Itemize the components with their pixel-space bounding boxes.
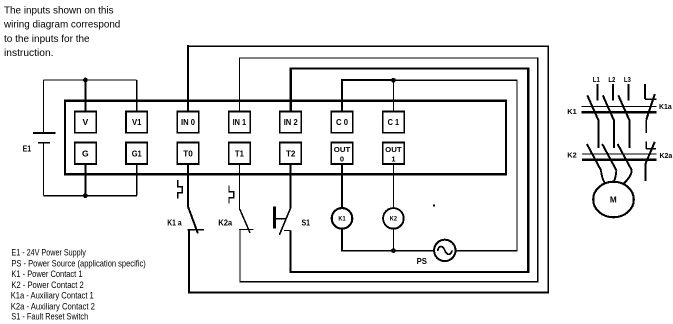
- svg-text:IN 2: IN 2: [284, 117, 298, 127]
- legend text: [11, 247, 146, 321]
- wire IN2 loop bottom: [291, 271, 530, 273]
- svg-text:V1: V1: [132, 117, 142, 127]
- aux K2a tail: [645, 163, 647, 181]
- svg-text:E1: E1: [23, 143, 32, 153]
- wire G drop (thick): [84, 164, 86, 196]
- contactor K2 bank thick bar: [582, 159, 656, 162]
- wire OUT0 to K1 coil: [341, 164, 343, 208]
- svg-text:L3: L3: [624, 75, 631, 84]
- svg-text:K1: K1: [567, 107, 576, 116]
- wire C0/C1 loop top: [341, 79, 394, 81]
- svg-text:C 1: C 1: [388, 117, 400, 127]
- wire E1 bottom horizontal to G1: [44, 195, 137, 197]
- aux K1a seat tick: [645, 98, 656, 100]
- contact K1a seat tick: [187, 229, 204, 231]
- wire IN1 loop right: [537, 58, 539, 283]
- wire G1 drop: [136, 164, 138, 196]
- wire IN1 loop top: [239, 57, 538, 59]
- contactor K1 blade phase1: [587, 95, 598, 120]
- battery E1 bottom plate: [38, 142, 50, 144]
- svg-text:OUT: OUT: [334, 145, 351, 154]
- switch S1 upper wire: [290, 164, 292, 208]
- terminal C1: [383, 111, 405, 132]
- svg-text:M: M: [610, 195, 617, 204]
- junction dot G: [83, 193, 88, 198]
- phase L1 stub: [597, 84, 599, 101]
- svg-text:T2: T2: [286, 148, 296, 158]
- contactor K1 blade phase2: [603, 95, 614, 120]
- svg-text:G1: G1: [132, 148, 142, 158]
- wire K2a lower drop: [239, 230, 241, 283]
- wire K2 coil to bottom: [392, 229, 394, 251]
- switch S1 stem: [276, 218, 286, 220]
- wire E1 bottom vertical: [43, 143, 45, 196]
- wire IN1 loop bottom: [240, 281, 538, 283]
- motor lead 2: [614, 170, 616, 181]
- coil K2: [383, 208, 404, 229]
- switch S1 seat tick: [284, 229, 291, 231]
- wire K1 coil to bottom: [341, 229, 343, 252]
- terminal G1: [126, 143, 147, 165]
- wire IN0 loop top: [187, 45, 549, 47]
- source PS circle: [434, 240, 455, 261]
- wire IN0 loop bottom: [188, 292, 549, 294]
- wire C1 to PS loop top: [393, 79, 517, 81]
- wire IN1 riser: [238, 58, 240, 112]
- svg-text:K2a: K2a: [660, 151, 673, 160]
- svg-text:E1 - 24V Power Supply: E1 - 24V Power Supply: [11, 247, 86, 257]
- phase1 mid wire: [598, 120, 600, 149]
- svg-text:V: V: [83, 117, 89, 127]
- aux K1a blade: [646, 94, 655, 120]
- svg-text:to the inputs for the: to the inputs for the: [4, 34, 90, 45]
- contact K1a hook: [178, 180, 183, 198]
- terminal T0: [177, 143, 199, 165]
- svg-text:0: 0: [340, 154, 344, 163]
- svg-text:K1: K1: [338, 217, 346, 223]
- svg-text:K2: K2: [567, 151, 576, 160]
- phase3 mid wire: [629, 120, 631, 149]
- terminal IN0: [177, 111, 199, 132]
- wire coil bottom bus: [341, 250, 434, 252]
- svg-text:K2 - Power Contact 2: K2 - Power Contact 2: [11, 280, 83, 290]
- contact K2a blade: [240, 209, 250, 233]
- svg-text:instruction.: instruction.: [4, 48, 54, 59]
- aux K1a upper wire: [644, 84, 646, 99]
- contactor K1 bank thick bar: [582, 111, 657, 114]
- terminal T1: [229, 143, 251, 165]
- svg-text:C 0: C 0: [336, 117, 348, 127]
- junction dot C1: [391, 78, 396, 83]
- controller main box: [65, 101, 506, 175]
- svg-text:K1a - Auxiliary Contact 1: K1a - Auxiliary Contact 1: [11, 291, 94, 301]
- motor lead 3: [624, 170, 632, 183]
- contact K1a upper wire: [187, 164, 189, 208]
- svg-text:K2a - Auxiliary Contact 2: K2a - Auxiliary Contact 2: [11, 301, 95, 311]
- svg-text:PS: PS: [417, 256, 428, 266]
- note: intro paragraph: [3, 5, 120, 59]
- svg-text:1: 1: [391, 154, 395, 163]
- wire IN2 loop right: [527, 68, 529, 274]
- wire PS loop right: [516, 79, 518, 250]
- svg-text:PS - Power Source (application: PS - Power Source (application specific): [11, 258, 145, 268]
- wire IN2 riser: [290, 68, 292, 112]
- junction dot V: [83, 78, 88, 83]
- aux K2a blade: [646, 142, 655, 163]
- svg-text:T1: T1: [235, 148, 244, 158]
- contact K2a hook: [229, 185, 234, 203]
- svg-text:The inputs shown on this: The inputs shown on this: [4, 5, 114, 16]
- contact K1a blade: [188, 207, 198, 233]
- wire IN0 loop right: [547, 45, 549, 293]
- phase2 mid wire: [613, 120, 615, 149]
- wire S1 lower drop: [290, 230, 292, 273]
- switch S1 blade: [279, 208, 290, 235]
- aux K2a seat tick: [646, 148, 656, 150]
- source PS sine: [438, 247, 452, 255]
- svg-text:S1 - Fault Reset Switch: S1 - Fault Reset Switch: [11, 312, 88, 322]
- svg-text:IN 1: IN 1: [233, 117, 247, 127]
- svg-text:S1: S1: [302, 217, 311, 227]
- terminal IN2: [280, 111, 302, 132]
- motor M: [593, 182, 634, 218]
- wire E1 top vertical: [43, 80, 45, 132]
- contactor K1 blade phase3: [618, 95, 629, 120]
- wire V drop (thick): [84, 80, 86, 111]
- wire K1a lower drop: [188, 230, 190, 294]
- svg-text:K1 - Power Contact 1: K1 - Power Contact 1: [11, 269, 82, 279]
- terminal OUT1: [383, 143, 405, 165]
- aux link lower segment: [645, 141, 647, 149]
- contactor K2 blade phase2: [602, 144, 616, 170]
- wire C1 drop: [392, 80, 394, 111]
- svg-text:G: G: [82, 148, 89, 158]
- terminal IN1: [229, 111, 251, 132]
- wire OUT1 to K2 coil: [392, 164, 394, 208]
- junction dot K2 bottom: [391, 248, 396, 253]
- svg-text:OUT: OUT: [385, 145, 402, 154]
- svg-text:L1: L1: [593, 75, 600, 84]
- wire V1 drop: [136, 80, 138, 111]
- wire E1 top horizontal to V1: [44, 79, 137, 81]
- svg-text:IN 0: IN 0: [181, 117, 195, 127]
- phase L2 stub: [612, 84, 614, 101]
- terminal OUT0: [331, 143, 353, 165]
- contact K2a upper wire: [238, 164, 240, 209]
- terminal V1: [126, 111, 147, 132]
- wire IN0 riser: [187, 45, 189, 111]
- wire PS loop bottom right: [456, 250, 518, 252]
- switch S1 button bar: [273, 207, 276, 229]
- svg-text:T0: T0: [183, 148, 193, 158]
- wire C0 riser (thick): [341, 79, 343, 111]
- contact K2a seat tick: [239, 229, 253, 231]
- terminal C0: [331, 111, 353, 132]
- contactor K2 blade phase3: [618, 144, 632, 170]
- phase L3 stub: [628, 84, 630, 101]
- svg-text:K2: K2: [390, 217, 398, 223]
- wire IN2 loop top: [290, 67, 529, 69]
- svg-text:L2: L2: [608, 75, 615, 84]
- terminal V: [75, 111, 97, 132]
- svg-text:K1 a: K1 a: [167, 217, 182, 227]
- stray speck: [433, 204, 435, 206]
- svg-text:K2a: K2a: [218, 217, 232, 227]
- aux link upper segment: [645, 120, 647, 133]
- svg-text:wiring diagram correspond: wiring diagram correspond: [3, 20, 120, 31]
- svg-text:K1a: K1a: [659, 102, 673, 111]
- terminal T2: [280, 143, 302, 165]
- battery E1 top plate: [33, 132, 56, 134]
- contactor K1 bank thin bar: [582, 106, 657, 108]
- terminal G: [75, 143, 97, 165]
- coil K1: [332, 208, 353, 229]
- contactor K2 bank thin bar: [582, 153, 656, 155]
- contactor K2 blade phase1: [587, 144, 601, 170]
- motor lead 1: [601, 170, 605, 183]
